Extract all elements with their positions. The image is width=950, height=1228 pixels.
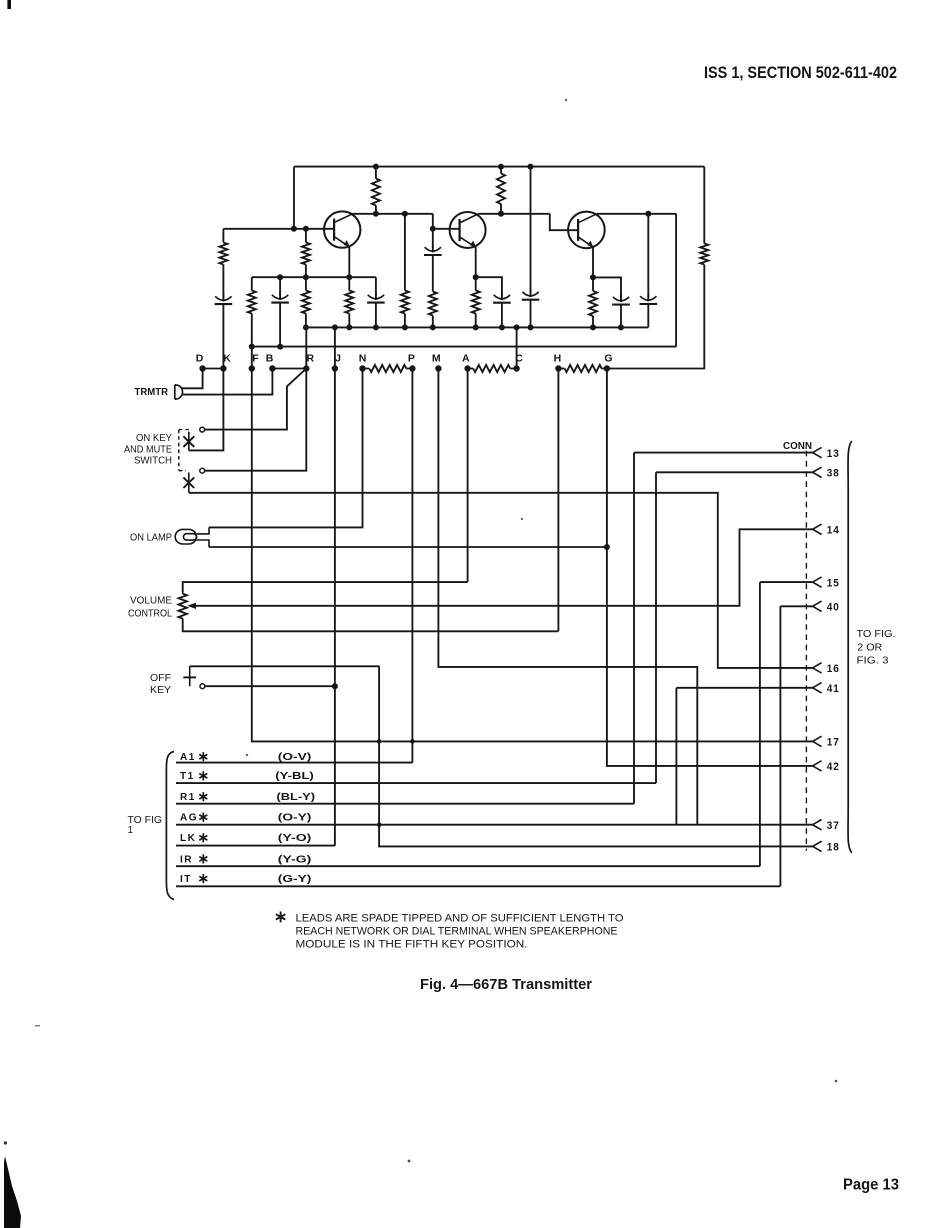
resistor R-col lower [302,291,310,314]
capacitor K column [215,296,231,300]
wire 280 cap upper [279,277,281,296]
wire CONN 38 to T1 row [656,472,813,783]
node crossing 379 [377,739,382,744]
svg-text:IR: IR [180,854,193,865]
node collector3/cap [645,211,651,217]
wire Q3 collector run [597,213,676,215]
wire 376 cap lower [375,303,377,328]
pin 13 [813,447,822,457]
svg-text:40: 40 [827,602,840,614]
wire right loop lower to G [607,265,704,369]
svg-text:K: K [223,352,231,364]
svg-text:15: 15 [827,577,840,589]
svg-text:(Y-BL): (Y-BL) [275,771,314,782]
switch OFF KEY contact [200,684,205,689]
svg-text:REACH NETWORK OR DIAL TERMINAL: REACH NETWORK OR DIAL TERMINAL WHEN SPEA… [296,926,618,938]
wire link B-R [272,368,306,370]
wire emitter2 resistor upper [475,277,477,290]
resistor emitter2 [472,291,480,314]
wire X2 to CONN 16 [189,493,813,668]
node base/R bias junction [303,226,309,232]
transistor Q3 [568,212,605,249]
node bus1 cap502 [499,324,505,330]
wire emitter1 resistor lower [348,314,350,328]
terminal D [199,365,205,371]
node rail/R1 [373,164,379,170]
capacitor Q2 base [425,247,441,251]
node G / lamp junction [604,544,610,550]
svg-text:Page 13: Page 13 [843,1177,899,1194]
svg-text:13: 13 [827,448,840,460]
svg-text:38: 38 [827,468,840,480]
wire G riser to CONN 42 [607,369,813,766]
resistor 432 column [429,292,437,316]
wire emitter2 to cap 502 [476,277,502,296]
resistor K bias [219,243,227,265]
wire Q1 emitter lead [348,247,350,277]
node bus1 res405 [402,324,408,330]
svg-text:14: 14 [827,525,840,537]
node bus1 R-col [303,324,309,330]
terminal F [249,365,255,371]
svg-text:OFF: OFF [150,673,171,684]
svg-text:ISS 1, SECTION 502-611-402: ISS 1, SECTION 502-611-402 [704,64,897,82]
resistor emitter3 [589,291,597,316]
wire top supply rail [294,166,704,168]
capacitor 376 column [368,295,384,299]
wire P riser [411,369,413,742]
svg-text:(O-Y): (O-Y) [278,813,312,824]
resistor right loop [700,244,708,265]
potentiometer VOLUME CONTROL [179,594,187,619]
svg-text:B: B [266,352,274,364]
terminal M [435,365,441,371]
svg-text:C: C [515,352,523,364]
terminal G [604,365,610,371]
capacitor 648 column [640,296,656,300]
wire K column mid lead [222,265,224,298]
wire 648 cap column upper [647,214,649,297]
capacitor 502 column [494,295,510,299]
pin 40 [813,601,822,611]
scan blob bottom-left [4,1156,21,1228]
wire Q1 collector run [353,213,433,215]
svg-text:17: 17 [827,737,840,749]
svg-text:F: F [252,352,259,364]
node F/bus2 [249,344,255,350]
node bus1 C riser [514,324,520,330]
wire R-col mid lead [305,265,307,291]
svg-text:M: M [432,352,441,364]
node bus1 res432 [430,324,436,330]
terminal A [464,365,470,371]
svg-text:H: H [554,352,562,364]
wire K column lower lead [222,304,224,368]
wire R-col upper lead [305,229,307,243]
resistor H-G [565,365,602,372]
svg-text:D: D [196,352,204,364]
capacitor rail column [522,292,538,296]
wire step to Q2 base [433,214,460,229]
wire lamp top lead to N [209,369,363,528]
terminal K [220,365,226,371]
svg-text:TO FIG.: TO FIG. [857,629,896,640]
node collector/R1 load [373,211,379,217]
scan specks [521,518,523,520]
wire OFF KEY top to CONN 18 [190,666,813,846]
terminal R [303,365,309,371]
switch OFF KEY pole [189,666,191,686]
wire CONN 15 to IR row [760,582,813,866]
svg-text:R1: R1 [180,792,196,803]
wire CONN 40 to IT row [780,606,812,886]
svg-text:(O-V): (O-V) [278,752,312,763]
pin 42 [813,761,822,771]
switch actuator dashed link [179,430,189,471]
wire N-P leads [363,368,413,370]
wire Q2 collector run [478,213,550,215]
wire OFF KEY bottom to J [205,685,335,687]
svg-text:(Y-G): (Y-G) [278,854,312,865]
wire 376 cap upper [375,277,377,296]
resistor R2 load (stage 2 collector) [497,174,505,205]
terminal P [409,365,415,371]
wire CONN 41 riser [676,688,812,825]
pin 38 [813,467,822,477]
wire R1 load top lead [375,167,377,179]
wire H-G leads [558,368,607,370]
node e-rail/cap280 [277,274,283,280]
svg-text:42: 42 [827,761,840,773]
node rail/C-rail [528,164,534,170]
wire Q3 emitter lead [592,247,594,277]
wire right loop upper [703,167,705,244]
wire pot wiper to CONN 14 [195,529,813,606]
node bus1 cap530 [528,324,534,330]
wire R2 load bottom lead [500,204,502,214]
terminal H [555,365,561,371]
wire 280 cap lower [279,303,281,347]
resistor emitter1 [345,291,353,314]
node bus1 emitter1-res [346,324,352,330]
resistor A-C [473,365,510,372]
wire R diagonal to switch [205,369,307,430]
wire lamp bottom lead to G [209,546,607,548]
svg-text:CONN: CONN [783,440,812,452]
wire emitter1 resistor upper [348,277,350,290]
connector bracket [848,441,852,853]
svg-text:41: 41 [827,683,840,695]
terminal J [332,365,338,371]
svg-text:ON LAMP: ON LAMP [130,532,172,543]
wire rail riser to Q1 base node [293,167,295,229]
wire emitter3 resistor lower [592,316,594,327]
wire pot bottom lead to H [183,369,559,632]
node bus2 cap280 [277,344,283,350]
wire K riser to switch [189,369,224,451]
terminal B [269,365,275,371]
node bus1 cap376 [373,324,379,330]
svg-text:CONTROL: CONTROL [128,608,172,619]
lamp ON LAMP symbol [175,527,209,547]
pin 15 [813,577,822,587]
transistor Q2 [450,212,486,248]
svg-text:(Y-O): (Y-O) [278,833,312,844]
pin 14 [813,524,822,534]
svg-text:AND MUTE: AND MUTE [124,444,172,455]
resistor F column [248,291,256,314]
wire rail cap column upper [530,167,532,293]
switch ON KEY contact 2 fixed [200,468,205,473]
wire Q2 emitter lead [475,247,477,277]
wire M to AG row [438,369,697,825]
transistor Q1 [324,211,360,247]
transmitter TRMTR symbol [175,385,183,399]
wire A-C leads [468,368,517,370]
node e-rail/emitter1 [346,274,352,280]
svg-text:AG: AG [180,813,198,824]
svg-text:N: N [359,352,367,364]
node bus1 res-e2 [473,324,479,330]
node collector/branch 405 [402,211,408,217]
node bus1 res-e3 [590,324,596,330]
wire 432 column lower lead [432,316,434,328]
switch ON KEY make contact X2 [188,473,190,493]
svg-text:Fig. 4—667B Transmitter: Fig. 4—667B Transmitter [420,977,592,993]
wire coupling cap top lead [432,229,434,249]
wire output bus2 [252,346,676,348]
svg-text:A1: A1 [180,752,196,763]
wire F column upper [251,277,253,290]
wire pot top lead to A [183,369,468,594]
node bus1 cap621 [618,324,624,330]
resistor N-P [369,365,406,372]
svg-text:IT: IT [180,874,192,885]
resistor 405 column [401,291,409,314]
wire AG row to CONN 37 [176,824,813,826]
wire CONN 13 to R1 row [634,453,813,804]
node bus1 J riser [332,324,338,330]
resistor R-col upper [302,243,310,265]
svg-text:FIG. 3: FIG. 3 [857,656,890,667]
left bracket TO FIG 1 [166,752,174,900]
wire R straight riser to contact 2 [205,369,307,471]
svg-text:(BL-Y): (BL-Y) [277,792,316,803]
wire rail cap column lower [530,300,532,328]
scan mark top-left [7,0,11,9]
wire Q3 collector riser to bus2 [675,214,677,347]
wire 405 column upper [404,214,406,291]
svg-text:ON KEY: ON KEY [136,433,172,444]
wire 621 cap lower [620,305,622,328]
pin 18 [813,841,822,851]
pin 17 [813,736,822,746]
switch ON KEY make contact X1 [188,432,190,451]
dashed connector line [805,451,807,851]
pot wiper arrow [187,603,196,609]
svg-text:P: P [408,352,415,364]
resistor R1 load (stage 1 collector) [372,179,380,206]
footnote asterisk [280,912,282,923]
svg-text:MODULE IS IN THE FIFTH KEY POS: MODULE IS IN THE FIFTH KEY POSITION. [296,938,528,950]
wire J long riser [334,369,336,846]
svg-text:KEY: KEY [150,685,171,696]
wire 502 cap lower [501,303,503,328]
wire K column upper lead [222,229,224,243]
svg-text:VOLUME: VOLUME [130,595,172,606]
terminal N [359,365,365,371]
svg-text:LEADS ARE SPADE TIPPED AND OF: LEADS ARE SPADE TIPPED AND OF SUFFICIENT… [296,912,624,924]
wire TRMTR bottom lead to B [183,369,273,395]
wire 648 cap column lower [647,304,649,327]
wire 405 column lower [404,314,406,328]
node OFF KEY / J junction [332,683,338,689]
wire link D-K [203,368,224,370]
svg-text:R: R [307,352,315,364]
node emitter2 [473,274,479,280]
wire J terminal riser [334,327,336,368]
svg-text:G: G [604,352,612,364]
svg-text:16: 16 [827,663,840,675]
wire emitter2 resistor lower [475,314,477,328]
svg-text:J: J [335,352,341,364]
node AG crossing 379 [377,822,382,827]
terminal C [513,365,519,371]
svg-text:18: 18 [827,842,840,854]
wire R1 load bottom lead [375,206,377,214]
capacitor 621 column [613,297,629,301]
node rail/R2 [498,164,504,170]
wire 432 column mid lead [432,255,434,292]
svg-text:LK: LK [180,833,196,844]
capacitor 280 column [272,295,288,299]
svg-text:1: 1 [128,825,133,836]
svg-text:TRMTR: TRMTR [135,387,169,398]
node Q2 base junction [430,226,436,232]
svg-text:A: A [462,352,470,364]
pin 16 [813,663,822,673]
wire emitter3 resistor upper [592,277,594,291]
svg-text:T1: T1 [180,771,195,782]
wire emitter3 to cap 621 [593,277,621,298]
node collector2/R2 load [498,211,504,217]
wire F column long run [252,314,813,742]
wire step to Q3 base [550,214,578,230]
svg-text:SWITCH: SWITCH [134,456,172,467]
node e-rail/R-col [303,274,309,280]
wire Q1 base [223,228,334,230]
wire emitter rail 1 [252,276,376,278]
switch ON KEY contact 1 fixed [200,427,205,432]
node emitter3 [590,274,596,280]
wire common bus1 [306,326,648,328]
wire C terminal riser [516,327,518,368]
wire A1 riser [411,741,413,762]
node pin17 junction [410,739,415,744]
svg-text:37: 37 [827,820,840,832]
pin 37 [813,820,822,830]
pin 41 [813,683,822,693]
wire R terminal riser [305,327,307,368]
svg-text:(G-Y): (G-Y) [278,874,312,885]
svg-text:2 OR: 2 OR [857,642,882,653]
wire TRMTR top lead to D [182,369,203,389]
wire R-col bottom lead [305,314,307,328]
node base riser junction [291,226,297,232]
wire R2 load top lead [500,167,502,174]
